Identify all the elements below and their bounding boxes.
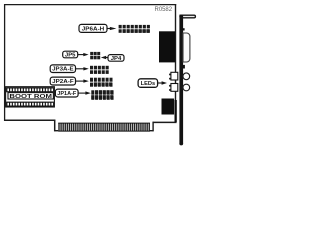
svg-text:LEDs: LEDs bbox=[141, 81, 156, 87]
svg-text:JP1A-F: JP1A-F bbox=[57, 91, 76, 97]
svg-text:JP5: JP5 bbox=[65, 53, 76, 59]
svg-text:JP2A-F: JP2A-F bbox=[52, 79, 74, 85]
svg-text:JP3A-E: JP3A-E bbox=[52, 67, 74, 73]
svg-text:JP6A-H: JP6A-H bbox=[82, 26, 105, 32]
svg-text:JP4: JP4 bbox=[111, 56, 122, 62]
svg-text:BOOT ROM: BOOT ROM bbox=[9, 94, 52, 100]
svg-text:R0582: R0582 bbox=[155, 7, 173, 13]
